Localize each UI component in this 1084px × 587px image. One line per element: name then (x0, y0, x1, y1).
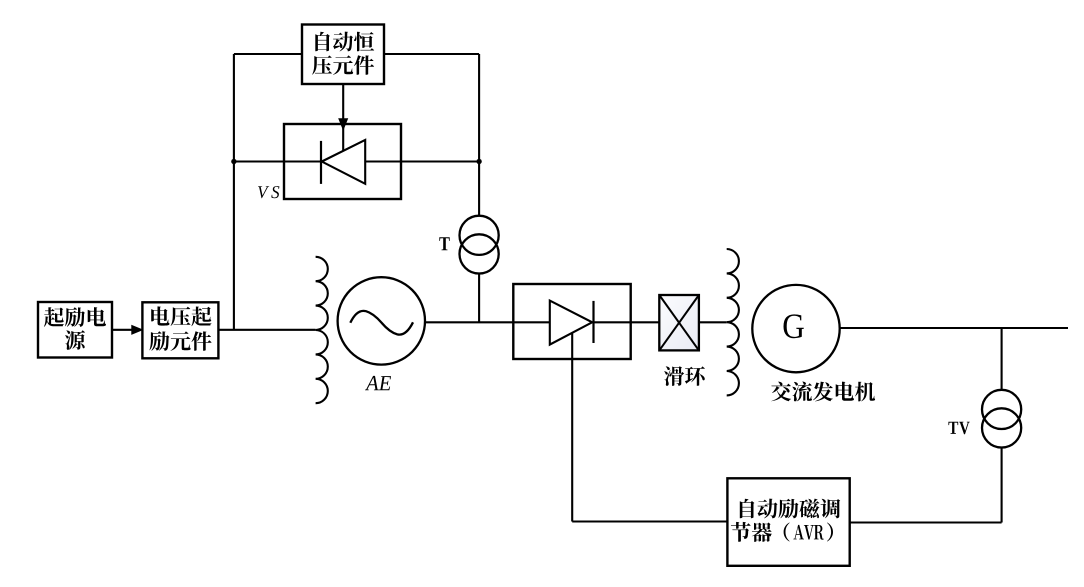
wire VS row left (234, 160, 321, 162)
text 压元件 (312, 55, 374, 75)
sine wave inside AE (350, 311, 413, 335)
label VS (258, 186, 279, 198)
arrow box1 to box2 (112, 326, 142, 335)
wire right vertical lower (T secondary to main bus) (478, 273, 480, 322)
wire bottom right horizontal (850, 521, 1002, 523)
wire left vertical (233, 54, 235, 330)
label T (439, 237, 449, 250)
transformer TV lower circle (982, 408, 1021, 447)
wire AE to rectifier (425, 321, 550, 323)
transformer T lower circle (460, 234, 499, 273)
wire slip rings to coil2 (699, 321, 727, 323)
text 励元件 (149, 331, 211, 351)
label G (784, 314, 804, 338)
wire box2 to coil1 (218, 329, 315, 331)
wire TV stem lower (1001, 447, 1003, 522)
thyristor VS cathode bar (320, 141, 322, 184)
AC exciter circle AE (338, 277, 425, 364)
box 起励电源 (38, 302, 112, 358)
box 自动恒压元件 (302, 25, 384, 85)
text 自动恒 (315, 32, 374, 52)
rectifier diode triangle (550, 301, 592, 345)
node dot left (231, 159, 236, 164)
box VS (thyristor block) (284, 124, 401, 199)
coil1 (AE field winding) (316, 257, 328, 403)
wire gate stem below arrow (342, 126, 344, 151)
text 源 (65, 330, 85, 350)
box AVR (727, 478, 849, 566)
box rectifier (513, 284, 630, 359)
text 节器（AVR） (731, 522, 833, 542)
label 滑环 (664, 366, 705, 386)
transformer T upper circle (460, 216, 499, 255)
box slip rings (659, 295, 699, 350)
wire VS row right (365, 160, 479, 162)
rectifier diode cathode bar (592, 301, 594, 343)
node dot right (476, 159, 481, 164)
arrow from top box to VS (339, 84, 348, 130)
text 起励电 (44, 307, 106, 327)
label 交流发电机 (771, 382, 875, 402)
slip rings X diagonal 1 (659, 295, 699, 350)
slip rings X diagonal 2 (659, 295, 699, 350)
wire right vertical upper (to T primary) (478, 54, 480, 216)
wire bottom left horizontal (572, 520, 727, 522)
transformer TV upper circle (982, 390, 1021, 429)
wire top-right horizontal (384, 53, 479, 55)
label TV (948, 422, 969, 435)
label AE (365, 376, 391, 390)
text 电压起 (151, 306, 211, 326)
wire rectifier output vertical (571, 334, 573, 522)
coil2 (generator field winding) (727, 249, 739, 395)
box 电压起励元件 (142, 302, 218, 358)
text 自动励磁调 (740, 499, 840, 519)
thyristor VS triangle (322, 140, 365, 184)
wire TV stem upper (1001, 328, 1003, 390)
wire top-left horizontal (234, 53, 302, 55)
wire rectifier to slip rings (594, 321, 660, 323)
generator circle G (752, 285, 839, 372)
wire generator to right end (840, 327, 1068, 329)
